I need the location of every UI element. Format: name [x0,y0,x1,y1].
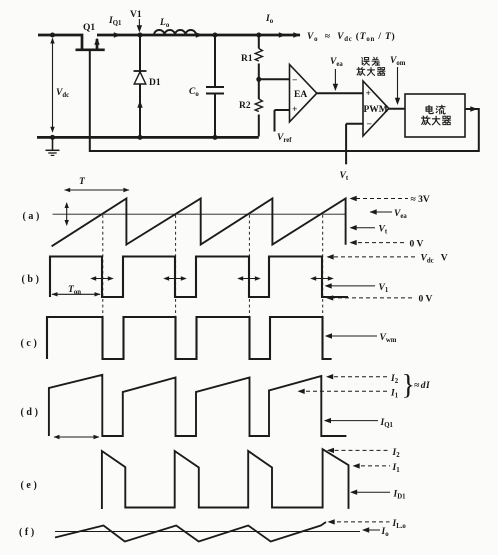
svg-text:}: } [402,370,415,401]
svg-text:0 V: 0 V [410,240,424,250]
svg-text:(f): (f) [19,527,37,538]
svg-text:+: + [366,89,371,99]
svg-text:≈dI: ≈dI [414,381,430,391]
svg-text:−: − [367,120,372,130]
svg-text:Vdc V: Vdc V [421,254,448,265]
svg-text:V1: V1 [130,10,142,20]
svg-text:(a): (a) [23,211,42,222]
svg-text:(e): (e) [21,480,40,491]
svg-text:(c): (c) [21,338,40,349]
svg-text:0 V: 0 V [419,295,433,305]
svg-text:(d): (d) [21,407,41,418]
svg-text:Q1: Q1 [83,23,95,33]
svg-text:(b): (b) [22,274,42,285]
svg-text:R1: R1 [241,54,253,64]
svg-text:PWM: PWM [364,105,388,115]
svg-text:R2: R2 [239,101,251,111]
svg-text:−: − [292,76,297,86]
svg-text:+: + [292,105,297,115]
svg-text:≈ 3V: ≈ 3V [411,195,430,205]
svg-text:EA: EA [294,90,307,100]
svg-text:D1: D1 [149,78,161,88]
